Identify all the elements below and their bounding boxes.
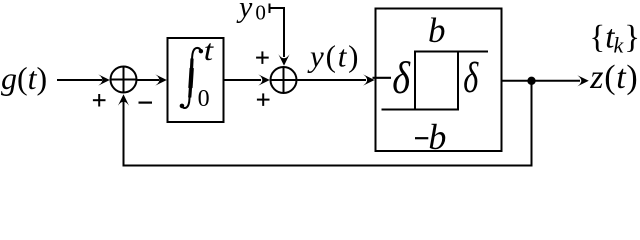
summing junction S2 bbox=[271, 67, 297, 93]
hysteresis lower line bbox=[382, 109, 460, 111]
wire g(t) to summing junction S1 bbox=[57, 74, 110, 85]
integral sign bbox=[180, 48, 203, 108]
wire integrator to summing junction S2 bbox=[224, 74, 270, 85]
feedback wire from output junction to S1 bbox=[118, 82, 532, 166]
svg-text:0: 0 bbox=[198, 86, 210, 112]
integrator block U1 bbox=[168, 38, 224, 122]
hysteresis right vertical at delta bbox=[457, 51, 459, 111]
svg-text:z(t): z(t) bbox=[589, 59, 638, 96]
svg-text:g(t): g(t) bbox=[1, 60, 47, 96]
plus sign at S1 input bbox=[93, 94, 106, 107]
svg-text:{t: {t bbox=[589, 20, 615, 56]
svg-text:y: y bbox=[236, 0, 253, 24]
svg-text:δ: δ bbox=[463, 55, 479, 103]
relay -delta threshold label bbox=[373, 54, 411, 104]
wire S1 to integrator bbox=[137, 74, 167, 85]
wire S2 to relay bbox=[297, 74, 375, 85]
hysteresis upper line bbox=[414, 51, 488, 53]
initial condition y0 label bbox=[236, 0, 266, 25]
plus sign above-left of S2 bbox=[256, 51, 269, 64]
svg-text:y(t): y(t) bbox=[307, 39, 360, 74]
svg-text:t: t bbox=[204, 33, 215, 66]
svg-text:b: b bbox=[428, 11, 446, 50]
plus sign below-left of S2 bbox=[257, 93, 270, 106]
svg-text:b: b bbox=[428, 117, 446, 157]
relay lower output level -b label bbox=[415, 117, 446, 157]
minus sign at S1 feedback input bbox=[139, 101, 153, 103]
output sampling times {t_k} label bbox=[589, 20, 640, 58]
svg-text:}: } bbox=[624, 20, 640, 56]
wire relay to output z(t) bbox=[502, 75, 589, 86]
initial condition wire y0 to S2 bbox=[270, 4, 290, 66]
relay block U2 bbox=[376, 9, 502, 152]
summing junction S1 bbox=[111, 67, 137, 93]
output junction dot bbox=[527, 77, 535, 85]
svg-text:k: k bbox=[614, 32, 625, 57]
svg-text:0: 0 bbox=[255, 1, 266, 25]
hysteresis left vertical at -delta bbox=[414, 51, 416, 111]
svg-text:δ: δ bbox=[392, 54, 410, 104]
